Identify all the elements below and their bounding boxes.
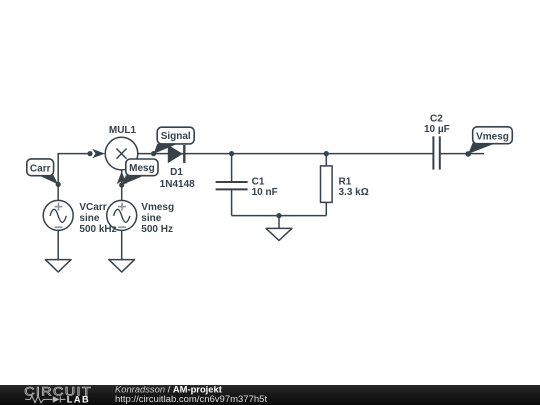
svg-text:10 nF: 10 nF xyxy=(252,187,278,198)
svg-text:Carr: Carr xyxy=(30,164,51,175)
svg-text:sine: sine xyxy=(79,213,99,224)
svg-text:1N4148: 1N4148 xyxy=(160,179,195,190)
svg-text:sine: sine xyxy=(141,213,161,224)
svg-text:Mesg: Mesg xyxy=(129,163,155,174)
svg-text:500 kHz: 500 kHz xyxy=(79,224,116,235)
svg-text:http://circuitlab.com/cn6v97m3: http://circuitlab.com/cn6v97m377h5t xyxy=(115,394,267,405)
svg-text:Vmesg: Vmesg xyxy=(141,202,174,213)
svg-text:MUL1: MUL1 xyxy=(109,125,137,136)
svg-text:Konradsson / AM-projekt: Konradsson / AM-projekt xyxy=(115,384,222,395)
svg-text:C2: C2 xyxy=(430,113,443,124)
svg-text:VCarr: VCarr xyxy=(79,202,106,213)
svg-text:C1: C1 xyxy=(252,176,265,187)
svg-text:3.3 kΩ: 3.3 kΩ xyxy=(339,187,369,198)
svg-text:D1: D1 xyxy=(170,167,183,178)
svg-text:LAB: LAB xyxy=(67,394,90,404)
svg-text:500 Hz: 500 Hz xyxy=(141,224,173,235)
svg-text:R1: R1 xyxy=(339,176,352,187)
svg-text:Vmesg: Vmesg xyxy=(476,132,509,143)
svg-text:10 µF: 10 µF xyxy=(424,124,450,135)
svg-text:Signal: Signal xyxy=(161,131,191,142)
